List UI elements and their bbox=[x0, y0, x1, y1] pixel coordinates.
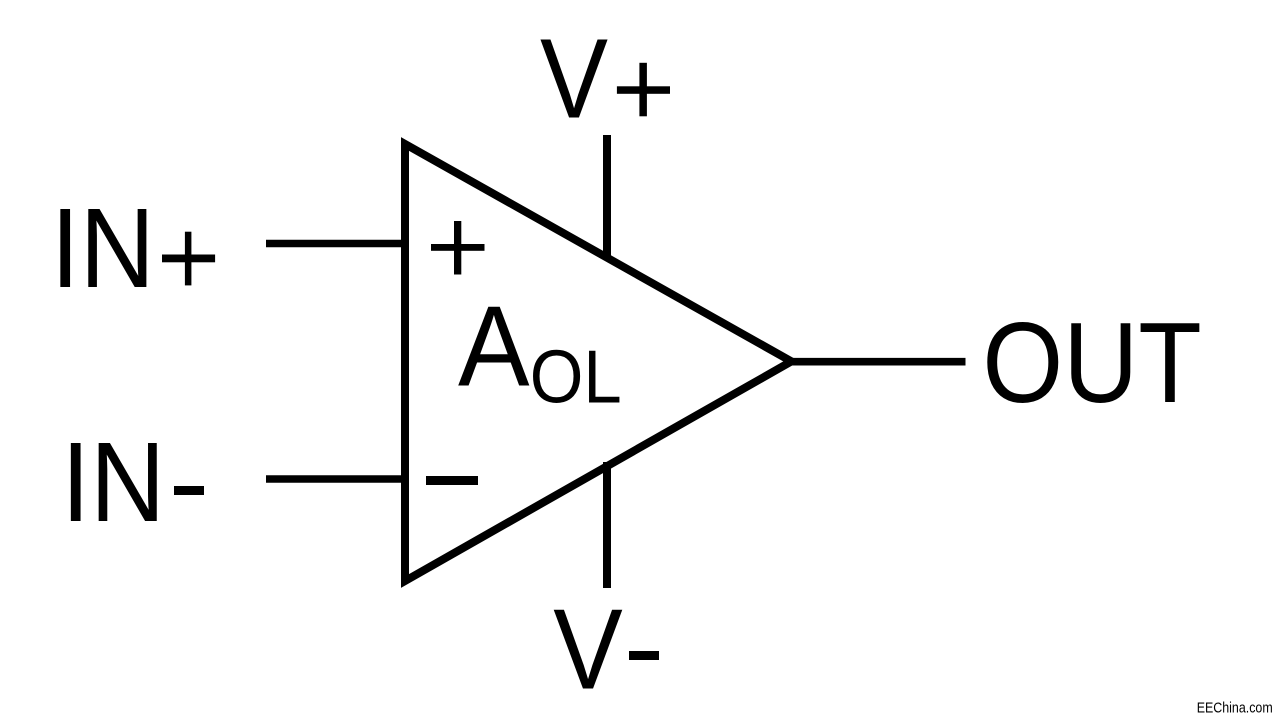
svg-text:OUT: OUT bbox=[982, 300, 1201, 427]
wire IN+ lead bbox=[266, 240, 406, 248]
svg-text:V: V bbox=[553, 587, 623, 714]
svg-text:OL: OL bbox=[530, 335, 622, 419]
label V+ (plus vertical bar) bbox=[639, 63, 647, 117]
label V+ (plus horizontal bar) bbox=[617, 86, 670, 94]
wire V- lead bbox=[603, 462, 611, 588]
label IN- (dash) bbox=[174, 486, 204, 495]
svg-text:V: V bbox=[540, 15, 608, 141]
wire V+ lead bbox=[603, 135, 611, 259]
label V- (dash) bbox=[629, 651, 659, 660]
pin + (non-inverting input mark): horizontal bar bbox=[431, 244, 485, 251]
svg-text:A: A bbox=[458, 284, 530, 411]
label IN+ (plus vertical bar) bbox=[185, 232, 192, 286]
op-amp U1 triangle body bbox=[405, 144, 791, 581]
svg-text:EEChina.com: EEChina.com bbox=[1197, 700, 1273, 717]
svg-text:IN: IN bbox=[61, 419, 165, 545]
wire IN- lead bbox=[266, 475, 406, 483]
label IN+ (plus horizontal bar) bbox=[162, 255, 215, 263]
pin + (non-inverting input mark): vertical bar bbox=[454, 221, 461, 275]
svg-text:IN: IN bbox=[51, 185, 155, 311]
wire OUT lead bbox=[789, 358, 966, 366]
pin - (inverting input mark) bbox=[426, 476, 478, 485]
